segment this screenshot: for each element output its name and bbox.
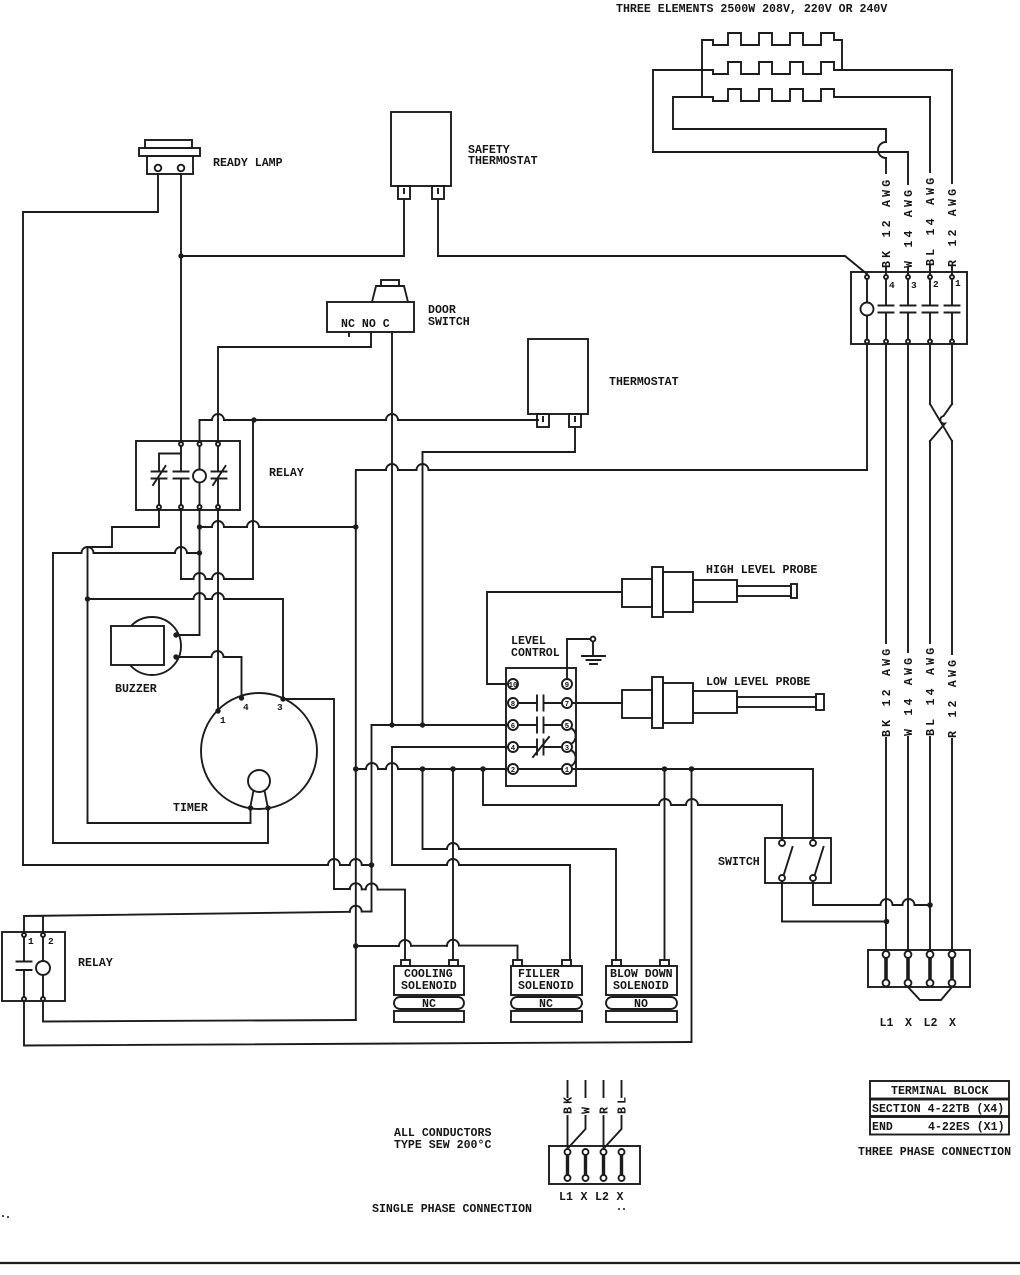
switch box — [765, 838, 831, 883]
wire pin2 line y769 — [356, 769, 813, 840]
svg-text:SECTION 4-22TB (X4): SECTION 4-22TB (X4) — [872, 1103, 1004, 1116]
wire hop D over x218 — [212, 521, 224, 527]
high level probe — [622, 579, 652, 607]
relay K1 contact C (NC with slash) — [212, 446, 227, 505]
svg-text:3: 3 — [565, 745, 570, 753]
svg-text:END: END — [872, 1121, 893, 1134]
terminal 2 contact — [923, 279, 938, 339]
wire pole2 bottom to BL — [813, 881, 930, 905]
pin 7 — [562, 698, 572, 708]
wire line E y599 — [88, 599, 284, 699]
node y769 x453 — [450, 766, 456, 772]
terminal 1 contact — [945, 279, 960, 339]
svg-text:SOLENOID: SOLENOID — [518, 980, 574, 993]
svg-text:W: W — [581, 1104, 594, 1114]
wire buzzer to timer4 — [176, 657, 242, 698]
wire hop y905 over W — [903, 899, 915, 905]
svg-text:TIMER: TIMER — [173, 802, 208, 815]
wire BL lower — [929, 441, 931, 951]
wire timer3 to x334 rail — [283, 699, 334, 889]
wire BK into L1 — [567, 1116, 569, 1149]
wire hop y890 over x372 — [366, 883, 378, 889]
buzzer — [123, 617, 181, 675]
wire relay2 pin1 bottom rail y1046 — [24, 1001, 692, 1046]
node B right — [197, 550, 202, 555]
wire R lower — [951, 441, 953, 951]
svg-text:THERMOSTAT: THERMOSTAT — [468, 155, 538, 168]
svg-text:NC NO C: NC NO C — [341, 318, 390, 331]
wire rail x372 — [371, 725, 373, 911]
timer knob — [248, 770, 270, 792]
svg-text:X: X — [581, 1191, 588, 1204]
wire pole1 bottom to BK — [782, 881, 887, 922]
svg-text:THREE ELEMENTS 2500W 208V, 220: THREE ELEMENTS 2500W 208V, 220V OR 240V — [616, 3, 887, 16]
node thermostat line junction — [251, 417, 256, 422]
relay K1 coil — [193, 470, 206, 483]
node timer terminal 4 — [239, 695, 244, 700]
wire BK feed to terminal 4 — [673, 129, 886, 142]
wire hop y913 over x356 — [350, 906, 362, 912]
jumper X-X — [908, 987, 952, 1000]
single phase connector stubs — [568, 1081, 622, 1097]
timer — [201, 693, 317, 809]
wire BK into terminal — [885, 267, 887, 274]
svg-text:3: 3 — [277, 702, 283, 713]
svg-text:W 14 AWG: W 14 AWG — [903, 187, 916, 268]
svg-text:THREE PHASE CONNECTION: THREE PHASE CONNECTION — [858, 1146, 1011, 1159]
svg-text:BL: BL — [617, 1094, 630, 1114]
svg-text:2: 2 — [48, 936, 54, 947]
wire hop E over x218 — [212, 593, 224, 599]
wire BK down (left label column) — [885, 344, 887, 951]
node timer terminal 3 — [280, 696, 285, 701]
svg-text:THERMOSTAT: THERMOSTAT — [609, 376, 679, 389]
wire crossover twist BL/R — [930, 404, 952, 441]
terminal block (lower right) — [868, 950, 970, 987]
wire hop F over thermostat rail — [417, 464, 429, 470]
svg-text:4: 4 — [243, 702, 249, 713]
wire hop y865 over x334 — [328, 859, 340, 865]
wire relay pinA step to x87 rail — [88, 509, 160, 823]
wire hop over door NO vertical — [212, 414, 224, 420]
wire hop over x218 — [212, 651, 224, 657]
stray mark — [2, 1215, 4, 1217]
terminal1 coil circle — [866, 279, 868, 339]
wire hop y865b over x453 — [447, 859, 459, 865]
wire R into L2 — [603, 1116, 605, 1149]
wire hop y890 over x356 — [350, 883, 362, 889]
relay K1 contact B — [174, 446, 189, 505]
wire hop B over pinB wire — [175, 547, 187, 553]
node y769 x483 — [480, 766, 486, 772]
wire hop E over coil wire — [194, 593, 206, 599]
svg-text:NC: NC — [422, 998, 436, 1011]
solenoid bus y945 — [356, 946, 518, 960]
wire hop C over contactC wire — [212, 573, 224, 579]
node E left — [85, 596, 90, 601]
door switch — [327, 302, 414, 332]
svg-text:L2: L2 — [595, 1191, 609, 1204]
node y769 x664 — [662, 766, 668, 772]
capacitor 6-5 — [518, 718, 562, 733]
svg-text:1: 1 — [28, 936, 34, 947]
svg-text:R 12 AWG: R 12 AWG — [947, 186, 960, 267]
wire hop y849 over x453 — [447, 843, 459, 849]
relay K2 coil — [36, 961, 50, 975]
wire line B y553 — [53, 552, 200, 554]
svg-text:SOLENOID: SOLENOID — [401, 980, 457, 993]
svg-text:6: 6 — [511, 723, 515, 731]
node D left — [197, 524, 202, 529]
wire timer right bottom to x53 rail — [53, 808, 268, 843]
wire pin4 line — [392, 747, 508, 865]
wire C down — [391, 332, 393, 725]
wire x691 down to bottom rail — [691, 769, 693, 1042]
safety thermostat — [391, 112, 451, 186]
svg-text:L2: L2 — [924, 1017, 938, 1030]
pin 2 — [508, 764, 518, 774]
wire hop BK over W line — [878, 142, 886, 158]
wire x483 to switch pole1 — [483, 769, 782, 840]
node y865-x372 — [369, 862, 375, 868]
wire hop y805 over x664 — [659, 799, 671, 805]
svg-text:7: 7 — [565, 701, 569, 709]
node pin6-thermostat rail — [420, 722, 425, 727]
svg-text:5: 5 — [565, 723, 569, 731]
node y769 x691 — [689, 766, 695, 772]
svg-text:CONTROL: CONTROL — [511, 647, 560, 660]
wire lamp right pin down to relay — [180, 174, 182, 442]
relay K2 capacitor — [17, 937, 32, 997]
wire C wire to filler right y865 — [392, 865, 570, 960]
svg-text:R 12 AWG: R 12 AWG — [947, 657, 960, 738]
cooling solenoid — [401, 960, 410, 966]
wire hop bus over x453 — [447, 940, 459, 946]
wire hop y865 over x356 — [350, 859, 362, 865]
pin 10 — [508, 679, 518, 689]
wire hop y905 over BK — [881, 899, 893, 905]
svg-text:BL 14 AWG: BL 14 AWG — [925, 175, 938, 266]
wire hop y805 over x691 — [686, 799, 698, 805]
wire safety thermostat right pin down — [437, 199, 439, 256]
connector block (single phase) — [549, 1146, 640, 1184]
svg-text:W 14 AWG: W 14 AWG — [903, 655, 916, 736]
wire element E1 left lead — [702, 40, 713, 97]
blow down solenoid — [612, 960, 621, 966]
wire coil top to thermostat left pin — [200, 420, 539, 442]
heating element E2 (middle) — [713, 62, 952, 74]
svg-text:2: 2 — [511, 767, 515, 775]
pin 5 — [562, 720, 572, 730]
pin 6 — [508, 720, 518, 730]
svg-text:SINGLE PHASE CONNECTION: SINGLE PHASE CONNECTION — [372, 1203, 532, 1216]
low level probe — [622, 690, 652, 718]
svg-text:X: X — [617, 1191, 624, 1204]
wire element E3 left lead loop — [673, 97, 713, 129]
relay K1 box — [136, 441, 240, 510]
svg-text:L1: L1 — [880, 1017, 894, 1030]
svg-text:X: X — [905, 1017, 912, 1030]
wire line C y579 — [181, 421, 253, 579]
wire NO to relay — [218, 332, 371, 442]
switch blade 1 — [784, 847, 793, 874]
svg-text:BL 14 AWG: BL 14 AWG — [925, 645, 938, 736]
wire terminal1 down to left feed — [866, 344, 868, 470]
page bottom rule — [0, 1262, 1020, 1264]
wire coil bottom to buzzer — [176, 509, 200, 635]
level control box — [506, 668, 576, 786]
node lamp junction — [178, 253, 183, 258]
svg-text:RELAY: RELAY — [78, 957, 113, 970]
wire feed from safety thermostat to terminal block — [438, 256, 867, 274]
node y769 x422 — [420, 766, 426, 772]
svg-text:8: 8 — [511, 701, 515, 709]
wire rail x356 down — [355, 470, 357, 1020]
node timer terminal 1 — [215, 708, 220, 713]
relay K2 box — [2, 932, 65, 1001]
svg-text:R: R — [599, 1104, 612, 1114]
wire pin10 to high probe — [487, 592, 622, 684]
wire R down to crossover — [951, 344, 953, 404]
svg-text:1: 1 — [220, 715, 226, 726]
svg-text:BK: BK — [563, 1094, 576, 1114]
svg-text:BK 12 AWG: BK 12 AWG — [881, 177, 894, 268]
wire hop bus over x405 — [399, 940, 411, 946]
node D right — [353, 524, 358, 529]
wire W diagonal into L1 — [569, 1116, 586, 1147]
capacitor 4-3 with slash — [518, 737, 562, 757]
svg-text:X: X — [949, 1017, 956, 1030]
svg-text:READY LAMP: READY LAMP — [213, 157, 283, 170]
node y769 x356 — [353, 766, 359, 772]
terminal block table — [870, 1081, 1009, 1099]
wire line D y527 — [200, 526, 356, 528]
wire hop y769 over x372 — [366, 763, 378, 769]
wire left rail y865 — [23, 864, 372, 866]
svg-text:2: 2 — [933, 279, 939, 290]
wire x664 blowdown right — [664, 769, 666, 960]
wire x422 to blowdown left — [423, 769, 617, 960]
thermostat — [528, 339, 588, 414]
wire hop D over x253 — [247, 521, 259, 527]
wire relay pinB down — [180, 509, 182, 579]
svg-text:L1: L1 — [559, 1191, 573, 1204]
wire R upper segment — [951, 70, 953, 274]
node y905 BL — [927, 902, 933, 908]
svg-text:9: 9 — [565, 682, 569, 690]
svg-text:BK 12 AWG: BK 12 AWG — [881, 646, 894, 737]
node pin6-Cwire — [389, 722, 394, 727]
svg-text:4: 4 — [511, 745, 516, 753]
wire BL down to crossover — [929, 344, 931, 404]
svg-text:HIGH LEVEL PROBE: HIGH LEVEL PROBE — [706, 564, 817, 577]
wire hop F over C wire — [386, 464, 398, 470]
svg-text:LOW LEVEL PROBE: LOW LEVEL PROBE — [706, 676, 810, 689]
node y921 x886 — [884, 919, 890, 925]
svg-text:1: 1 — [955, 278, 961, 289]
pin NC stub — [348, 332, 350, 336]
pin 3 — [562, 742, 572, 752]
svg-text:4-22ES (X1): 4-22ES (X1) — [928, 1121, 1005, 1134]
jumper arc 3-1 — [571, 750, 576, 766]
svg-text:RELAY: RELAY — [269, 467, 304, 480]
wire W into terminal — [907, 267, 909, 274]
wire BL upper segment — [929, 97, 931, 274]
wire W feed to terminal 3 — [653, 152, 908, 184]
wire hop y769 over x392 — [386, 763, 398, 769]
wire hop over door C vertical — [386, 414, 398, 420]
ground symbol — [567, 639, 590, 679]
svg-text:NO: NO — [634, 998, 648, 1011]
heating element E3 (bottom) — [713, 89, 930, 101]
jumper arc 5-3 — [571, 728, 576, 744]
wire hop B over x87 — [82, 547, 94, 553]
wire thermostat right pin to down rail — [423, 427, 576, 725]
wire x453 cooling right — [452, 769, 454, 960]
wire relay2 pin2 bottom rail y1021 — [43, 1001, 356, 1022]
wire rail x53 — [52, 553, 54, 843]
svg-text:SWITCH: SWITCH — [428, 316, 470, 329]
svg-text:TYPE SEW 200°C: TYPE SEW 200°C — [394, 1139, 491, 1152]
svg-text:3: 3 — [911, 280, 917, 291]
capacitor 8-7 — [518, 696, 562, 711]
wire lamp to safety thermostat — [181, 199, 404, 256]
heating element E1 (top) — [713, 33, 842, 70]
wire BL diagonal into L2 — [605, 1116, 622, 1147]
wire timer left bottom to x87 rail — [88, 808, 251, 823]
wire pin6 line — [372, 724, 509, 726]
wire lamp left pin to left rail — [23, 174, 158, 865]
terminal 3 contact — [901, 279, 916, 339]
relay K1 contact A (NC with slash) — [152, 454, 182, 506]
svg-text:SWITCH: SWITCH — [718, 856, 760, 869]
wire contactC bottom to timer1 — [217, 509, 219, 711]
svg-text:SOLENOID: SOLENOID — [613, 980, 669, 993]
terminal block (upper) — [851, 272, 967, 344]
wire hop C over coil wire — [194, 573, 206, 579]
wire element E2 left lead loop — [653, 70, 713, 152]
pin 8 — [508, 698, 518, 708]
svg-text:4: 4 — [889, 280, 895, 291]
switch blade 2 — [815, 847, 824, 874]
filler solenoid — [513, 960, 522, 966]
svg-text:NC: NC — [539, 998, 553, 1011]
wire terminal1 feed line F — [356, 469, 867, 471]
pin 9 — [562, 679, 572, 689]
pin 1 — [562, 764, 572, 774]
wire W down — [907, 344, 909, 951]
svg-text:BUZZER: BUZZER — [115, 683, 157, 696]
wire relay2 top line y913 — [24, 912, 372, 934]
pin 4 — [508, 742, 518, 752]
ready lamp — [139, 140, 200, 174]
node bus x356 — [353, 943, 359, 949]
terminal 4 contact — [879, 279, 894, 339]
wire y890 line to cooling solenoid — [334, 889, 405, 960]
svg-text:10: 10 — [509, 682, 518, 690]
svg-text:TERMINAL BLOCK: TERMINAL BLOCK — [891, 1085, 988, 1098]
svg-text:1: 1 — [565, 767, 570, 775]
wire pin7 to low probe — [572, 702, 622, 704]
